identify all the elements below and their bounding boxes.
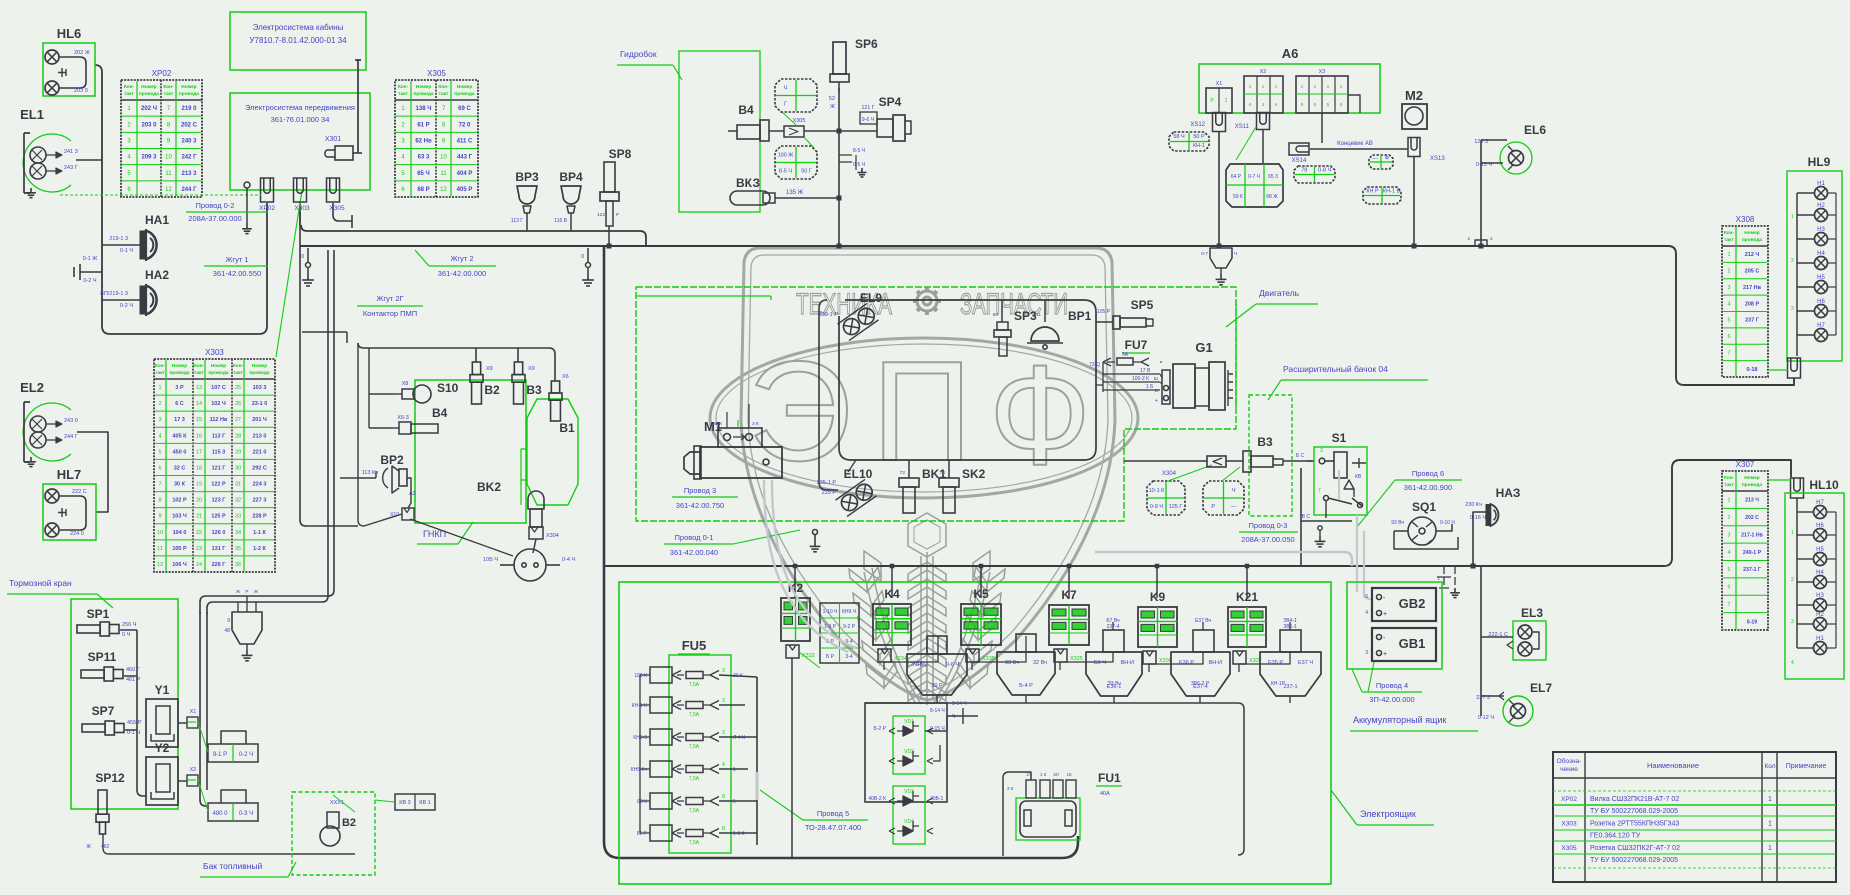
wire diode connections bbox=[925, 708, 978, 731]
HL9 lamps bbox=[1791, 181, 1836, 356]
svg-text:Тормозной кран: Тормозной кран bbox=[9, 578, 72, 588]
svg-text:10: 10 bbox=[165, 155, 172, 161]
svg-text:361-42.00.750: 361-42.00.750 bbox=[676, 501, 724, 510]
svg-text:212 Ч: 212 Ч bbox=[1745, 252, 1760, 258]
green wire G1 bbox=[1235, 300, 1237, 408]
svg-text:26: 26 bbox=[235, 401, 241, 407]
svg-text:213 0: 213 0 bbox=[253, 433, 267, 439]
svg-text:1: 1 bbox=[1314, 84, 1317, 90]
green dashed wire to plugs bbox=[60, 194, 261, 196]
svg-text:HL7: HL7 bbox=[57, 467, 82, 482]
parts list table bbox=[1553, 752, 1836, 882]
lamp box HL10 bbox=[1785, 478, 1844, 679]
plug XS11 bbox=[1235, 113, 1270, 131]
svg-text:0-8 Ч: 0-8 Ч bbox=[1318, 167, 1331, 173]
svg-text:102 Ч: 102 Ч bbox=[211, 401, 226, 407]
wire gnkp top loop bbox=[302, 332, 549, 348]
svg-text:228 Р: 228 Р bbox=[252, 514, 267, 520]
funnel K5 bbox=[997, 634, 1055, 695]
svg-text:В: В bbox=[1155, 388, 1158, 394]
svg-text:B4: B4 bbox=[432, 406, 448, 420]
svg-text:125 Р: 125 Р bbox=[211, 514, 226, 520]
svg-text:23: 23 bbox=[196, 546, 202, 552]
sensor B4 gnkp bbox=[391, 406, 448, 434]
svg-text:1: 1 bbox=[733, 767, 736, 773]
table K2 wires bbox=[820, 603, 859, 663]
svg-text:SP7: SP7 bbox=[92, 704, 115, 718]
svg-text:4: 4 bbox=[1249, 102, 1252, 108]
solenoid Y2 bbox=[146, 741, 178, 805]
svg-text:Л-4 К: Л-4 К bbox=[733, 735, 745, 741]
plug HL10 top bbox=[1768, 478, 1804, 498]
connector K21 plug bbox=[1233, 651, 1262, 664]
svg-text:7,5А: 7,5А bbox=[689, 776, 700, 782]
svg-text:Провод 4: Провод 4 bbox=[1376, 681, 1408, 690]
svg-text:221 0: 221 0 bbox=[253, 449, 267, 455]
svg-text:EL3: EL3 bbox=[1521, 606, 1543, 620]
svg-text:SP11: SP11 bbox=[88, 650, 117, 664]
svg-text:Е36 Р: Е36 Р bbox=[1179, 660, 1194, 666]
label wire 5 bbox=[760, 790, 868, 832]
crossbox X304 left bbox=[1147, 481, 1185, 515]
wire bus stub ground 1 bbox=[306, 248, 311, 274]
relay K5 bbox=[961, 587, 1001, 645]
svg-text:4: 4 bbox=[158, 433, 161, 439]
svg-text:19: 19 bbox=[196, 482, 202, 488]
connector plug XP02 bbox=[261, 178, 274, 202]
svg-text:0-2 Ч: 0-2 Ч bbox=[120, 303, 133, 309]
fuse FU1 bbox=[1016, 771, 1122, 840]
svg-text:4: 4 bbox=[722, 762, 725, 768]
svg-text:8: 8 bbox=[722, 794, 725, 800]
svg-text:ВН-И: ВН-И bbox=[1209, 660, 1222, 666]
horn HA1 bbox=[109, 213, 169, 261]
gray cable M1 to relays bbox=[764, 480, 848, 652]
pressure sender BP2 bbox=[362, 453, 416, 497]
svg-text:ТУ БУ 500227068.029-2005: ТУ БУ 500227068.029-2005 bbox=[1590, 808, 1678, 815]
svg-text:69 С: 69 С bbox=[458, 106, 471, 112]
svg-text:0-19: 0-19 bbox=[1747, 619, 1757, 625]
svg-text:ВКЗ: ВКЗ bbox=[736, 176, 760, 190]
svg-text:107 С: 107 С bbox=[211, 385, 226, 391]
wire B3 line bbox=[1124, 460, 1314, 462]
connector K7 tall bbox=[1103, 618, 1124, 652]
svg-text:1: 1 bbox=[1791, 214, 1794, 220]
svg-text:450 0: 450 0 bbox=[173, 449, 187, 455]
battery GB1 bbox=[1365, 628, 1436, 661]
svg-text:Ч: Ч bbox=[784, 86, 788, 92]
svg-text:Кон-: Кон- bbox=[155, 363, 166, 369]
svg-text:Электросистема кабины: Электросистема кабины bbox=[253, 23, 344, 32]
svg-text:73 Q: 73 Q bbox=[1089, 362, 1100, 368]
svg-text:3: 3 bbox=[1365, 650, 1368, 656]
svg-text:138 Ч: 138 Ч bbox=[416, 106, 432, 112]
svg-text:32 Вч: 32 Вч bbox=[1033, 660, 1047, 666]
svg-text:240 3: 240 3 bbox=[181, 138, 197, 144]
svg-text:2: 2 bbox=[158, 401, 161, 407]
wire ground stub left bbox=[74, 264, 102, 280]
svg-text:такт: такт bbox=[1724, 483, 1734, 488]
svg-text:X303: X303 bbox=[294, 205, 310, 212]
svg-text:Х6: Х6 bbox=[562, 374, 569, 380]
wires relays to bus bbox=[794, 566, 796, 598]
svg-text:17 3: 17 3 bbox=[174, 417, 185, 423]
svg-text:5: 5 bbox=[1301, 102, 1304, 108]
wire vertical pair to brake valves bbox=[207, 250, 328, 614]
indicator block HL6 bbox=[43, 26, 95, 96]
svg-text:208А-37.00.050: 208А-37.00.050 bbox=[1241, 535, 1294, 544]
svg-text:235-1 Р: 235-1 Р bbox=[817, 480, 837, 486]
svg-text:135 Ж: 135 Ж bbox=[786, 190, 804, 196]
crossbox M2 a bbox=[1369, 155, 1393, 169]
svg-text:23-1 0: 23-1 0 bbox=[252, 401, 268, 407]
svg-text:1: 1 bbox=[1768, 820, 1772, 827]
svg-text:Х303: Х303 bbox=[1561, 820, 1577, 827]
starter M1 bbox=[684, 419, 782, 479]
wire M1 connections bbox=[727, 404, 749, 428]
svg-text:Х9: Х9 bbox=[486, 366, 493, 372]
svg-text:КН-1Р: КН-1Р bbox=[1271, 681, 1286, 687]
svg-text:Контактор ПМП: Контактор ПМП bbox=[363, 309, 417, 318]
svg-text:Расширительный бачок 04: Расширительный бачок 04 bbox=[1283, 364, 1388, 374]
svg-text:ЗЧ-В: ЗЧ-В bbox=[911, 662, 924, 668]
svg-text:SP12: SP12 bbox=[95, 771, 125, 785]
connector K5 plug bbox=[966, 649, 995, 662]
svg-text:SP6: SP6 bbox=[855, 37, 878, 51]
svg-text:3: 3 bbox=[1727, 285, 1730, 291]
crossbox below B4 bbox=[775, 146, 817, 179]
svg-text:5: 5 bbox=[1727, 318, 1730, 324]
svg-text:125 Г: 125 Г bbox=[1169, 504, 1183, 510]
svg-text:32: 32 bbox=[235, 498, 241, 504]
svg-text:Жгут 2Г: Жгут 2Г bbox=[376, 294, 403, 303]
svg-text:58 Ч: 58 Ч bbox=[1173, 134, 1185, 140]
svg-text:XP02: XP02 bbox=[1561, 796, 1577, 803]
svg-text:SK2: SK2 bbox=[962, 467, 986, 481]
wire HA2 stub bbox=[102, 299, 140, 301]
svg-text:65 3: 65 3 bbox=[1268, 174, 1278, 180]
svg-text:6: 6 bbox=[1727, 334, 1730, 340]
lamp cluster EL9 bbox=[819, 291, 883, 341]
svg-text:Х1: Х1 bbox=[1216, 81, 1223, 87]
svg-text:6: 6 bbox=[158, 465, 161, 471]
svg-text:—: — bbox=[1372, 155, 1378, 161]
svg-text:0-1 Ч: 0-1 Ч bbox=[120, 248, 133, 254]
svg-text:8-14 Ч: 8-14 Ч bbox=[952, 701, 967, 707]
svg-text:4: 4 bbox=[1365, 610, 1368, 616]
svg-text:EL9: EL9 bbox=[860, 291, 882, 305]
lamp cluster EL10 bbox=[817, 467, 877, 517]
svg-text:21: 21 bbox=[196, 514, 202, 520]
svg-text:1: 1 bbox=[1301, 84, 1304, 90]
svg-text:HL6: HL6 bbox=[57, 26, 82, 41]
svg-text:8: 8 bbox=[158, 498, 161, 504]
svg-text:203 0: 203 0 bbox=[74, 88, 88, 94]
svg-text:64 Р: 64 Р bbox=[1231, 174, 1242, 180]
svg-text:Наименование: Наименование bbox=[1647, 761, 1699, 770]
svg-text:0-2 Ч: 0-2 Ч bbox=[239, 752, 253, 758]
wire thick loop electro box bbox=[604, 247, 1078, 858]
svg-text:1: 1 bbox=[1249, 84, 1252, 90]
wire B4 to SP6 line bbox=[769, 130, 784, 132]
svg-text:93 Вч: 93 Вч bbox=[1005, 660, 1019, 666]
svg-text:7,5А: 7,5А bbox=[689, 808, 700, 814]
svg-text:BP3: BP3 bbox=[515, 170, 539, 184]
wire XS12 down to bus bbox=[1218, 131, 1220, 246]
svg-text:405 К: 405 К bbox=[172, 433, 187, 439]
hydro box dashed bbox=[679, 51, 760, 212]
svg-text:BP4: BP4 bbox=[559, 170, 583, 184]
label wire 3 bbox=[672, 486, 738, 510]
svg-text:361-42.00.550: 361-42.00.550 bbox=[213, 269, 261, 278]
svg-text:НАЗ: НАЗ bbox=[1496, 486, 1521, 500]
sensor B2 cyl bbox=[470, 362, 500, 404]
wire K2 down to bottom bbox=[791, 658, 793, 857]
pressure switch SP1 bbox=[77, 607, 137, 638]
svg-text:9-6 Ч: 9-6 Ч bbox=[862, 117, 875, 123]
svg-text:такт: такт bbox=[194, 371, 204, 376]
crossbox XS14 bbox=[1294, 166, 1335, 183]
label hydro box bbox=[617, 49, 682, 80]
svg-text:BK2: BK2 bbox=[477, 480, 501, 494]
svg-text:201 Ч: 201 Ч bbox=[252, 417, 267, 423]
svg-text:Вилка СШ32ПК21В-АТ-7 02: Вилка СШ32ПК21В-АТ-7 02 bbox=[1590, 796, 1679, 803]
lamp box HL9 bbox=[1787, 155, 1842, 361]
svg-text:+: + bbox=[1383, 651, 1387, 658]
svg-text:Кол: Кол bbox=[1764, 763, 1775, 770]
svg-text:Б Р: Б Р bbox=[826, 654, 835, 660]
svg-text:0-5 Ч: 0-5 Ч bbox=[853, 162, 865, 168]
fuel tank dashed box bbox=[292, 792, 375, 875]
svg-text:1 Б: 1 Б bbox=[1146, 384, 1154, 390]
svg-text:Номер: Номер bbox=[172, 363, 188, 369]
svg-text:7: 7 bbox=[158, 482, 161, 488]
svg-text:28: 28 bbox=[235, 433, 241, 439]
svg-text:такт: такт bbox=[155, 371, 165, 376]
svg-text:провода: провода bbox=[1742, 238, 1763, 243]
svg-text:FU7: FU7 bbox=[1125, 338, 1148, 352]
svg-text:B2: B2 bbox=[342, 817, 356, 829]
svg-text:244 Г: 244 Г bbox=[181, 187, 197, 193]
svg-text:ВП/219-1 3: ВП/219-1 3 bbox=[100, 291, 128, 297]
svg-text:Электроящик: Электроящик bbox=[1360, 809, 1416, 819]
label wire 4 bbox=[1352, 662, 1422, 704]
sensor SP6 bbox=[829, 37, 878, 110]
relay K2 bbox=[781, 581, 810, 641]
svg-text:103 3: 103 3 bbox=[253, 385, 267, 391]
svg-text:3: 3 bbox=[1728, 532, 1731, 538]
svg-text:чение: чение bbox=[1560, 766, 1578, 773]
svg-text:Провод 3: Провод 3 bbox=[684, 486, 716, 495]
svg-text:7,5А: 7,5А bbox=[689, 712, 700, 718]
svg-text:405 Р: 405 Р bbox=[457, 187, 473, 193]
svg-text:22: 22 bbox=[196, 530, 202, 536]
svg-text:такт: такт bbox=[164, 92, 174, 97]
indicator block HL7 bbox=[43, 467, 96, 540]
sensor SP3 bbox=[993, 300, 1037, 356]
svg-text:Х335: Х335 bbox=[982, 656, 995, 662]
svg-text:116 В: 116 В bbox=[554, 218, 567, 224]
svg-text:Х1: Х1 bbox=[190, 709, 197, 715]
svg-text:Y1: Y1 bbox=[155, 683, 170, 697]
connector funnel with ground bbox=[224, 589, 262, 650]
FU5 fuses bbox=[631, 667, 745, 846]
sensor SP4 bbox=[860, 95, 911, 141]
svg-text:B3: B3 bbox=[1257, 435, 1273, 449]
svg-text:0-1 Ч: 0-1 Ч bbox=[127, 730, 140, 736]
svg-text:такт: такт bbox=[233, 371, 243, 376]
crossbox M2 b bbox=[1363, 187, 1401, 204]
table Y2 wires bbox=[198, 780, 258, 821]
svg-text:0-7 Ч: 0-7 Ч bbox=[1248, 174, 1260, 180]
svg-text:48: 48 bbox=[224, 628, 230, 634]
connector K4 plug bbox=[878, 649, 907, 662]
label wire 0-3 bbox=[1239, 521, 1298, 544]
svg-text:XS12: XS12 bbox=[1190, 122, 1205, 128]
svg-text:B1: B1 bbox=[559, 421, 575, 435]
A6 connector X1 bbox=[1206, 81, 1232, 113]
svg-text:112 Нв: 112 Нв bbox=[210, 417, 228, 423]
wire loop B sensors bbox=[476, 348, 555, 381]
svg-text:Кон-: Кон- bbox=[163, 84, 174, 90]
wire bus stub ground 2 bbox=[586, 248, 591, 274]
svg-text:У7810.7-8.01.42.000-01 34: У7810.7-8.01.42.000-01 34 bbox=[249, 36, 347, 45]
svg-text:462: 462 bbox=[101, 844, 110, 850]
svg-text:5А: 5А bbox=[1122, 352, 1129, 358]
wire X301 up bbox=[355, 60, 361, 153]
green leaders X304 bbox=[1168, 465, 1212, 481]
svg-text:Б6 Ч: Б6 Ч bbox=[1094, 660, 1106, 666]
svg-text:GB2: GB2 bbox=[1399, 596, 1426, 611]
svg-text:230 Кч: 230 Кч bbox=[1465, 502, 1482, 508]
svg-text:Х8: Х8 bbox=[402, 381, 409, 387]
svg-text:X308: X308 bbox=[1736, 215, 1755, 224]
sensor SK2 bbox=[939, 460, 986, 513]
green wire B1 BK2 bbox=[521, 449, 527, 505]
connector plug X303 mid bbox=[294, 178, 307, 202]
watermark wheat sheaf bbox=[849, 513, 1005, 705]
svg-text:3: 3 bbox=[722, 668, 725, 674]
svg-text:61 Р: 61 Р bbox=[417, 122, 429, 128]
svg-text:1: 1 bbox=[1728, 498, 1731, 504]
svg-text:9-1 Р: 9-1 Р bbox=[213, 752, 227, 758]
wire EL6 down bbox=[1481, 140, 1507, 246]
svg-text:Провод 6: Провод 6 bbox=[1412, 469, 1444, 478]
svg-text:EL7: EL7 bbox=[1530, 681, 1552, 695]
svg-text:217-1 Нв: 217-1 Нв bbox=[1741, 532, 1763, 538]
svg-text:74: 74 bbox=[940, 470, 946, 476]
green leader XS11 bbox=[1236, 127, 1256, 160]
svg-text:1: 1 bbox=[1791, 530, 1794, 536]
svg-text:ГЕ0.364.120 ТУ: ГЕ0.364.120 ТУ bbox=[1590, 833, 1641, 840]
svg-text:XS11: XS11 bbox=[1235, 124, 1250, 130]
svg-text:EL10: EL10 bbox=[844, 467, 873, 481]
connector Y2 plug bbox=[187, 767, 198, 786]
fuel sensor B2 bbox=[320, 795, 356, 846]
connector Y1 plug bbox=[187, 709, 198, 728]
svg-text:5: 5 bbox=[158, 449, 161, 455]
svg-text:461 Р: 461 Р bbox=[126, 677, 141, 683]
engine bus funnel bbox=[1201, 248, 1237, 274]
connector X10 below BP2 bbox=[390, 508, 414, 520]
svg-text:72 0: 72 0 bbox=[459, 122, 471, 128]
svg-text:провода: провода bbox=[249, 371, 270, 376]
wire FU7 to G1 bbox=[1160, 362, 1162, 384]
connector X305 hydro plug bbox=[781, 111, 814, 148]
svg-text:Х305: Х305 bbox=[1561, 845, 1577, 852]
svg-text:Х9: Х9 bbox=[528, 366, 535, 372]
label GNKP bbox=[417, 522, 473, 544]
A6 connector X2 bbox=[1244, 69, 1283, 113]
wire SP6 bus junction bbox=[837, 244, 842, 249]
svg-text:68 Ж: 68 Ж bbox=[1266, 194, 1278, 200]
svg-text:XP02: XP02 bbox=[152, 69, 172, 78]
svg-text:HA2: HA2 bbox=[145, 268, 169, 282]
relay K4 bbox=[873, 587, 911, 645]
svg-text:1-10 Ч: 1-10 Ч bbox=[823, 609, 838, 615]
wire engine bottom stubs bbox=[848, 460, 856, 472]
svg-text:3: 3 bbox=[722, 698, 725, 704]
wire cluster vertical x300 bbox=[300, 212, 358, 526]
svg-text:Номер: Номер bbox=[457, 84, 473, 90]
svg-text:219 0: 219 0 bbox=[181, 106, 197, 112]
svg-text:25 К: 25 К bbox=[713, 421, 723, 427]
sensor BK3 bbox=[730, 176, 810, 205]
svg-text:8-5 Ч: 8-5 Ч bbox=[853, 148, 865, 154]
svg-text:202 Ж: 202 Ж bbox=[74, 50, 90, 56]
big connector under A6 bbox=[1226, 164, 1283, 207]
svg-text:SP5: SP5 bbox=[1131, 298, 1154, 312]
svg-text:100 Ж: 100 Ж bbox=[778, 153, 794, 159]
svg-text:Концевик АВ: Концевик АВ bbox=[1337, 141, 1373, 147]
svg-text:BP1: BP1 bbox=[1068, 309, 1092, 323]
svg-text:237 Г: 237 Г bbox=[1745, 318, 1760, 324]
svg-text:Б-4 Р: Б-4 Р bbox=[1019, 683, 1033, 689]
svg-text:Номер: Номер bbox=[252, 363, 268, 369]
svg-text:31: 31 bbox=[235, 482, 241, 488]
funnel K4 bbox=[907, 636, 967, 695]
svg-text:180 К: 180 К bbox=[634, 673, 647, 679]
wire BK3 junction bbox=[837, 196, 842, 201]
jumper on bus at EL6 bbox=[1467, 236, 1493, 246]
svg-text:10: 10 bbox=[157, 530, 163, 536]
sensor B4 hydro bbox=[728, 103, 769, 141]
svg-text:68 К: 68 К bbox=[637, 799, 647, 805]
svg-text:HA1: HA1 bbox=[145, 213, 169, 227]
svg-text:КН Р: КН Р bbox=[1366, 188, 1379, 194]
svg-text:40В-1: 40В-1 bbox=[930, 796, 944, 802]
svg-text:Кон-: Кон- bbox=[438, 84, 449, 90]
svg-text:ХХХ1: ХХХ1 bbox=[330, 800, 344, 806]
svg-text:—: — bbox=[1231, 504, 1237, 510]
svg-text:7,5А: 7,5А bbox=[689, 840, 700, 846]
svg-text:244 Г: 244 Г bbox=[64, 434, 78, 440]
connector X301 bbox=[325, 136, 362, 160]
funnel K9 b bbox=[1171, 652, 1230, 696]
svg-text:4: 4 bbox=[1727, 301, 1730, 307]
svg-text:Розетка СШ32ПК2Г-АТ-7 02: Розетка СШ32ПК2Г-АТ-7 02 bbox=[1590, 845, 1680, 852]
label harness 2 bbox=[415, 250, 496, 278]
svg-text:BP2: BP2 bbox=[380, 453, 404, 467]
svg-text:208 Р: 208 Р bbox=[1745, 301, 1760, 307]
svg-text:EL1: EL1 bbox=[20, 107, 44, 122]
svg-text:208А-37.00.000: 208А-37.00.000 bbox=[188, 214, 241, 223]
svg-text:126 0: 126 0 bbox=[212, 530, 226, 536]
svg-text:5: 5 bbox=[1340, 102, 1343, 108]
svg-text:7: 7 bbox=[1318, 488, 1321, 494]
headlamp EL2 bbox=[20, 380, 78, 467]
svg-text:226 Г: 226 Г bbox=[212, 562, 227, 568]
